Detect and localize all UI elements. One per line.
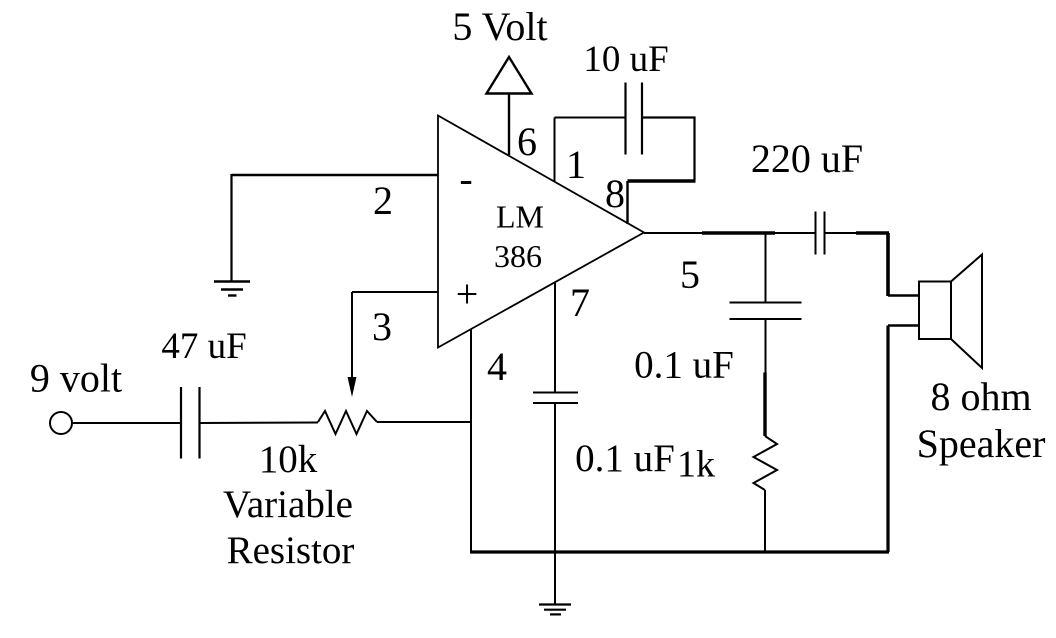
resistor R2 1k zigzag: [754, 436, 778, 490]
wire C4 to R2: [765, 319, 767, 373]
wire speaker stub bottom: [888, 324, 919, 327]
wire thick to corner: [856, 231, 889, 235]
wire C3 to speaker net: [825, 232, 858, 234]
svg-text:0.1 uF: 0.1 uF: [634, 344, 734, 387]
svg-text:3: 3: [372, 304, 392, 349]
svg-text:4: 4: [487, 344, 507, 389]
wire pin2 vertical to ground: [230, 174, 232, 281]
wire pin8 step horizontal: [628, 179, 696, 183]
wire speaker net vertical lower: [886, 326, 889, 553]
wire C2 right: [642, 118, 695, 181]
wire pin2 horizontal: [232, 174, 439, 177]
wire output pin5: [644, 232, 815, 234]
svg-text:+: +: [456, 272, 479, 317]
wire pot wiper arrow line: [351, 292, 353, 379]
svg-text:8 ohm: 8 ohm: [930, 374, 1031, 419]
capacitor C1 47uF plates: [181, 387, 200, 459]
op-amp U1 LM386 triangle: [438, 116, 644, 348]
wire speaker net vertical upper: [886, 233, 890, 296]
svg-text:10 uF: 10 uF: [583, 39, 668, 80]
wire pin1 to C2: [555, 117, 626, 119]
wire pin6 vertical: [508, 94, 510, 156]
wire C5 to rail and ground: [554, 403, 556, 604]
wire input: [72, 422, 181, 424]
ground G2: [539, 605, 571, 615]
svg-text:1: 1: [566, 142, 586, 187]
power symbol 5V arrow: [487, 57, 532, 94]
wire pin7 vertical: [554, 282, 556, 393]
speaker LS1 box: [919, 282, 951, 340]
svg-text:Speaker: Speaker: [917, 421, 1046, 466]
wire junction pin5 down: [765, 233, 767, 303]
wire C1 to R1: [200, 422, 319, 425]
capacitor C3 220uF plates: [816, 212, 825, 255]
resistor R1 10k zigzag: [318, 411, 377, 434]
wire R2 to rail: [764, 490, 766, 552]
wire bottom rail: [470, 550, 889, 553]
svg-text:Resistor: Resistor: [227, 529, 355, 572]
svg-text:7: 7: [570, 280, 590, 325]
svg-text:LM: LM: [496, 199, 544, 235]
svg-text:47 uF: 47 uF: [161, 326, 246, 367]
capacitor C5 0.1uF plates: [533, 393, 578, 404]
svg-text:10k: 10k: [259, 438, 318, 481]
wire output thick segment: [702, 231, 775, 235]
svg-text:9 volt: 9 volt: [30, 356, 122, 401]
wire pin8 vertical: [626, 181, 628, 224]
svg-text:386: 386: [494, 238, 542, 274]
svg-text:5 Volt: 5 Volt: [452, 4, 547, 49]
svg-text:220 uF: 220 uF: [751, 136, 863, 181]
wire thick R2 lead: [763, 373, 766, 437]
capacitor C4 0.1uF plates: [730, 303, 802, 320]
svg-text:6: 6: [517, 119, 537, 164]
speaker LS1 cone: [951, 255, 982, 369]
wire R1 to pin4 net: [377, 421, 472, 423]
svg-text:5: 5: [680, 252, 700, 297]
svg-text:8: 8: [605, 171, 625, 216]
wire pin4 vertical: [470, 329, 472, 552]
capacitor C2 10uF plates: [626, 83, 643, 155]
svg-text:1k: 1k: [677, 444, 715, 486]
ground G1: [214, 282, 250, 296]
svg-text:Variable: Variable: [223, 483, 353, 526]
svg-text:-: -: [459, 156, 472, 201]
svg-text:2: 2: [373, 178, 393, 223]
wire speaker stub top: [888, 294, 919, 297]
terminal input circle: [50, 412, 72, 434]
svg-text:0.1 uF: 0.1 uF: [575, 437, 675, 480]
wire pin3 horizontal: [352, 291, 438, 293]
wire pin1 vertical: [554, 118, 556, 182]
arrowhead wiper: [348, 377, 357, 397]
